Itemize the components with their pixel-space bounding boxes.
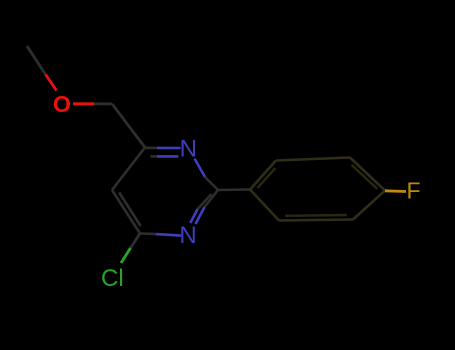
wire N3-C4 gray part [140,232,156,235]
wire O-CH2 red half [73,102,94,105]
wire ph F-A [250,190,279,221]
wire C4=C5 inner [119,193,140,227]
wire C2=N3 main blue half [196,207,205,224]
wire O-CH2 gray half [94,102,112,105]
wire C2-phenyl link [218,188,250,191]
wire CH3-O upper gray half [27,46,46,75]
wire C4-Cl green half [121,248,131,263]
wire C5-C6 [112,148,145,191]
wire N1-C2 gray half [205,177,218,190]
wire C6=N1 main gray half [145,147,157,150]
wire ph inner A=B [257,168,275,188]
wire C2=N3 inner blue part [190,209,197,223]
wire C6=N1 inner gray part [151,155,158,158]
wire CH3-O lower red half [46,75,57,91]
svg-text:O: O [53,91,71,117]
wire C2=N3 inner gray part [198,194,212,209]
wire C6=N1 inner blue part [157,155,178,158]
wire CH2-C6 [112,104,145,148]
wire ph D-E [353,191,385,220]
wire C4-Cl gray half [131,234,141,249]
wire C2=N3 main gray half [205,190,219,207]
wire ph E-F [279,220,353,221]
wire ph B-C [276,158,350,161]
wire C6=N1 main blue half [157,147,181,150]
svg-text:N: N [180,135,197,162]
wire N3-C4 blue part [156,234,181,236]
wire C4=C5 main [112,190,140,234]
svg-text:Cl: Cl [101,265,124,292]
wire C-F bond (gold) [385,189,406,192]
wire ph inner E=F [285,214,347,217]
wire ph A-B [250,161,276,190]
svg-text:N: N [179,222,196,249]
wire ph C-D [350,158,385,191]
wire N1-C2 blue half [195,159,206,178]
wire ph inner C=D [352,165,378,189]
svg-text:F: F [406,178,420,204]
